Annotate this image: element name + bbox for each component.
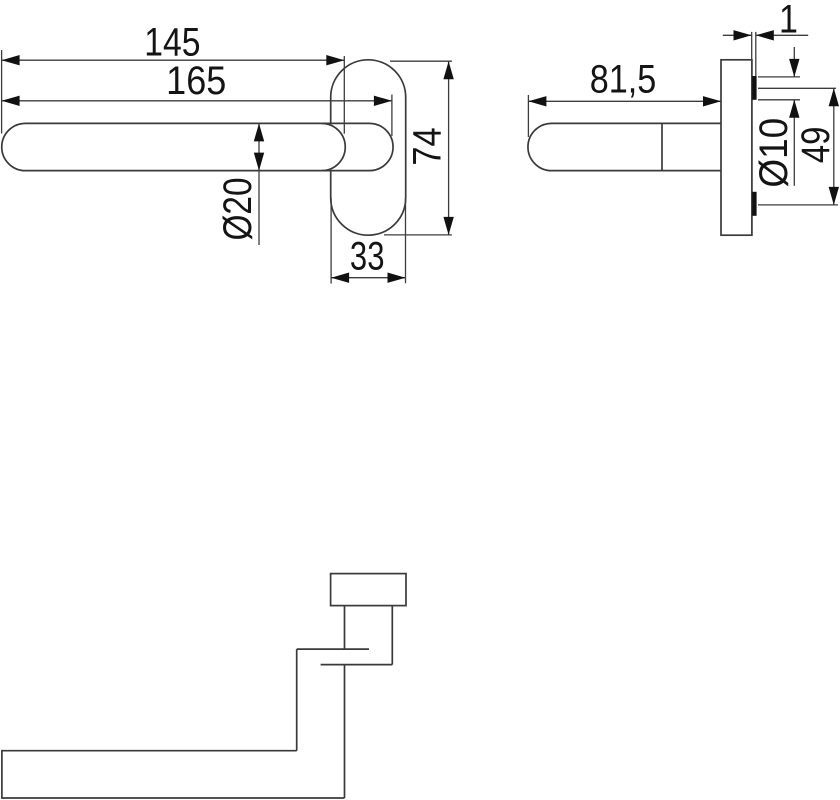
rosette plate (plan view) <box>331 574 406 606</box>
bend line A (plan view) <box>297 648 369 650</box>
dim 1 line left part <box>723 34 752 36</box>
handle bar seam (side view) <box>661 123 663 170</box>
arrowhead 74 top <box>443 61 453 79</box>
plate right edge (side view) <box>751 60 753 235</box>
dim Ø10 arrow line bottom <box>793 100 795 186</box>
dim 33 extension line right <box>405 198 407 284</box>
bottom fixing pin (side view, solid) <box>752 192 756 216</box>
dim 81,5 line <box>528 100 721 102</box>
dim 33 extension line left <box>330 198 332 284</box>
dim 145 extension line left <box>1 50 3 134</box>
dim Ø10 extension line bottom <box>758 99 800 101</box>
svg-text:Ø20: Ø20 <box>215 177 260 240</box>
svg-text:165: 165 <box>166 59 226 103</box>
arrowhead 33 right <box>388 273 406 283</box>
arrowhead 145 right <box>326 55 344 65</box>
bend line B (plan view) <box>321 664 393 666</box>
arrowhead 1 left (pointing right) <box>734 30 752 40</box>
dim 165 extension line right <box>391 95 393 137</box>
arrowhead 33 left <box>331 273 349 283</box>
dim Ø10 arrow line top <box>793 47 795 77</box>
dim 165 line <box>2 100 392 102</box>
rosette plate (side view) <box>721 60 752 235</box>
dim Ø10 extension line top <box>758 76 800 78</box>
svg-text:49: 49 <box>793 127 838 164</box>
svg-text:1: 1 <box>779 0 798 41</box>
neck right edge (plan view) <box>391 606 393 665</box>
arrowhead 49 top <box>829 88 839 106</box>
dim 1 extension line left <box>751 32 753 60</box>
arrowhead 81,5 right <box>703 96 721 106</box>
dim 81,5 extension line left <box>527 95 529 137</box>
dim 33 line <box>331 277 405 279</box>
arrowhead 145 left <box>2 55 20 65</box>
dim 49 extension line top <box>758 87 836 89</box>
svg-text:145: 145 <box>144 20 200 64</box>
arrowhead 1 right (pointing left) <box>756 30 774 40</box>
arrowhead 81,5 left <box>528 96 546 106</box>
crank arm left edge (plan view) <box>296 649 298 751</box>
dim 74 extension line top <box>390 60 452 62</box>
dim Ø20 line <box>258 123 260 245</box>
neck left edge (plan view) <box>344 606 346 650</box>
crank arm right edge (plan view) <box>344 665 346 798</box>
dim 145 line <box>2 59 345 61</box>
handle lever outline (front view) <box>2 123 393 170</box>
arrowhead Ø10 top (pointing down) <box>789 59 799 77</box>
svg-text:74: 74 <box>404 127 449 165</box>
arrowhead 165 left <box>2 96 20 106</box>
dim 74 extension line bottom <box>384 234 452 236</box>
handle bar (side view) <box>528 123 721 170</box>
svg-text:Ø10: Ø10 <box>752 118 797 188</box>
arrowhead Ø10 bottom (pointing up) <box>789 100 799 118</box>
svg-text:33: 33 <box>350 234 385 279</box>
dim 74 line <box>448 61 450 235</box>
arrowhead 49 bottom <box>829 187 839 205</box>
dim 1 line right part <box>756 34 808 36</box>
arrowhead Ø20 bottom <box>254 153 264 171</box>
dim 49 extension line bottom <box>758 204 838 206</box>
grip bar (plan view) <box>2 751 345 798</box>
top fixing pin (side view, solid) <box>752 76 756 100</box>
svg-text:81,5: 81,5 <box>590 56 657 101</box>
arrowhead 74 bottom <box>443 217 453 235</box>
handle grip end seam arc (front view) <box>322 123 346 170</box>
arrowhead 165 right <box>374 96 392 106</box>
dim 49 line <box>833 88 835 205</box>
arrowhead Ø20 top <box>254 123 264 141</box>
dim 145 extension line right <box>343 56 345 134</box>
dim 1 extension line right <box>755 32 757 76</box>
oval rosette outline (front view) <box>331 60 406 235</box>
